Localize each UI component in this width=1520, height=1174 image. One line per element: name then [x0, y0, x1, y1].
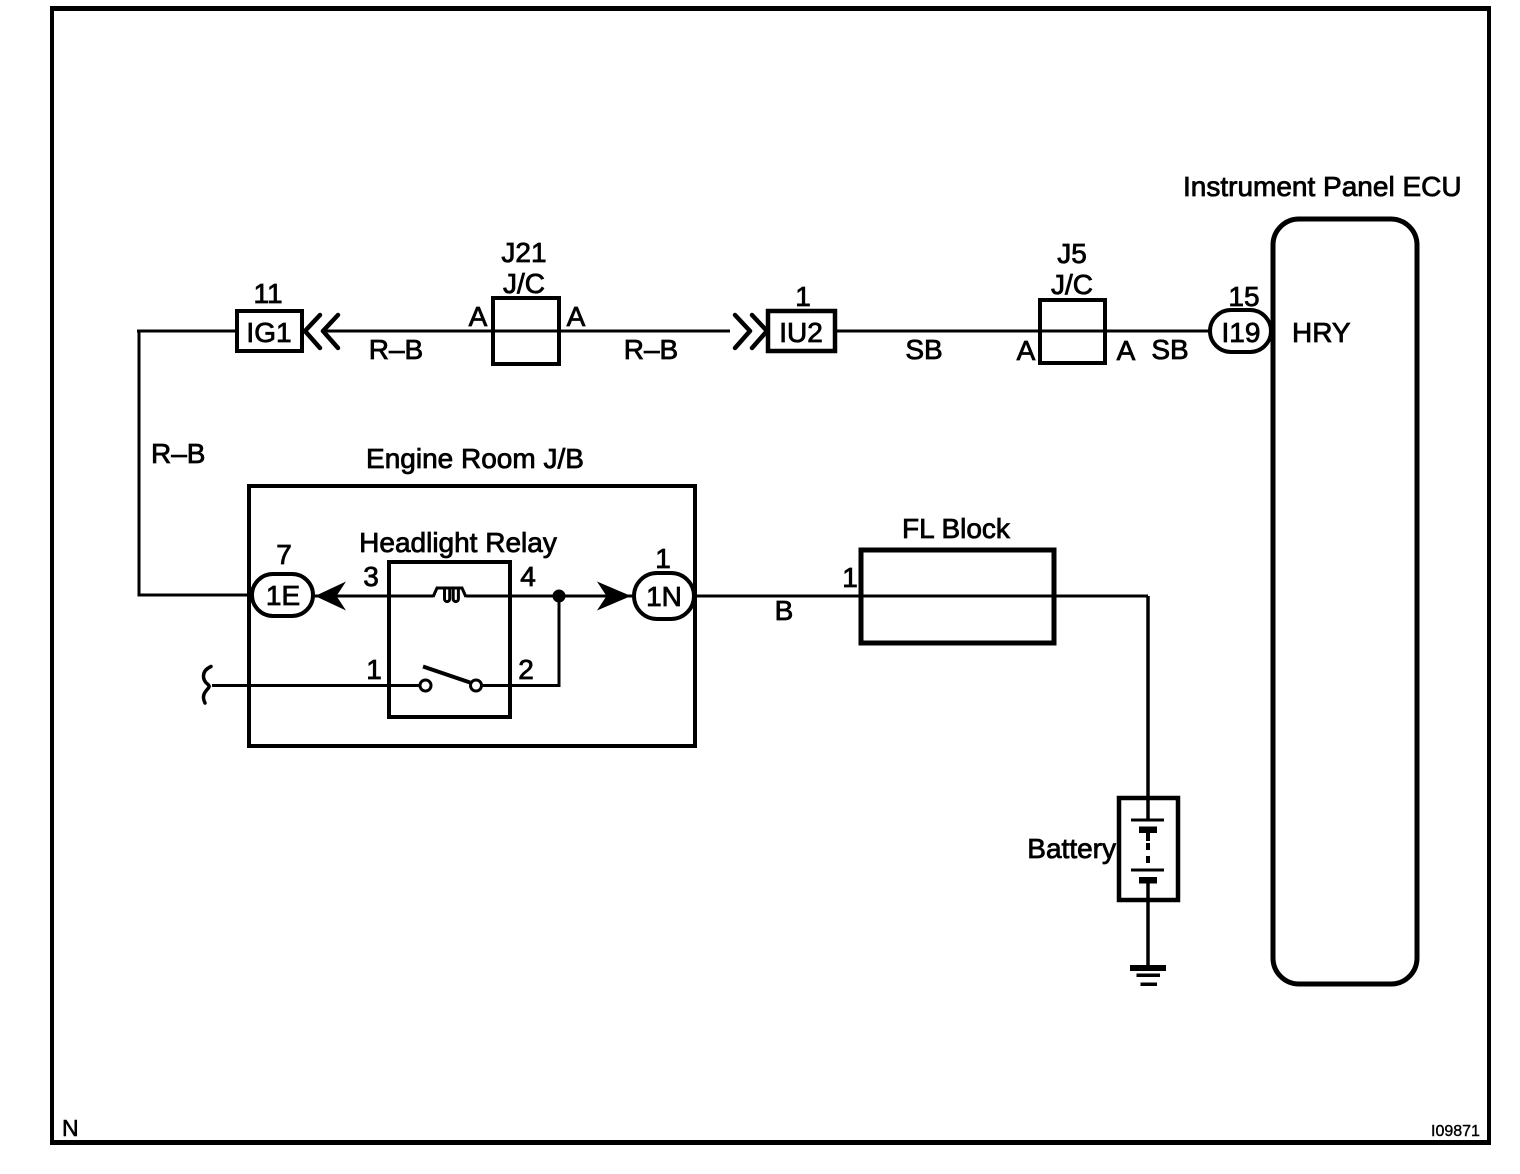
relay coil — [433, 588, 466, 602]
Engine Room J/B box — [249, 486, 695, 746]
relay box — [389, 562, 510, 717]
wire coil to junction — [466, 595, 559, 598]
svg-text:R–B: R–B — [369, 334, 423, 365]
svg-text:Instrument Panel ECU: Instrument Panel ECU — [1183, 171, 1462, 202]
connector 1N pin 1 — [634, 543, 694, 619]
svg-text:3: 3 — [363, 561, 379, 592]
svg-text:HRY: HRY — [1292, 317, 1351, 348]
wire break squiggle — [203, 667, 211, 704]
svg-text:I09871: I09871 — [1431, 1123, 1480, 1140]
svg-text:1N: 1N — [646, 581, 682, 612]
wire 1N to FL Block — [694, 595, 861, 598]
svg-text:IG1: IG1 — [246, 317, 291, 348]
ground — [1130, 965, 1166, 986]
svg-text:J/C: J/C — [503, 268, 545, 299]
svg-text:I19: I19 — [1222, 317, 1261, 348]
svg-text:J5: J5 — [1057, 238, 1087, 269]
svg-text:A: A — [1017, 335, 1036, 366]
wire 1E to relay coil — [313, 595, 433, 598]
svg-text:Headlight Relay: Headlight Relay — [359, 527, 557, 558]
svg-text:R–B: R–B — [151, 438, 205, 469]
LEFT-BRANCH — [139, 331, 252, 595]
black arrow into 1N — [597, 582, 631, 611]
svg-text:N: N — [62, 1115, 79, 1141]
svg-text:A: A — [469, 301, 488, 332]
svg-text:1: 1 — [795, 281, 811, 312]
vertical wire IG1 branch down — [139, 331, 252, 595]
svg-text:J/C: J/C — [1051, 269, 1093, 300]
FL-BATTERY — [694, 513, 1178, 986]
svg-text:B: B — [775, 595, 794, 626]
svg-text:Battery: Battery — [1027, 833, 1116, 864]
MAIN-ROW — [137, 237, 1271, 366]
connector I19 pin 15 — [1210, 281, 1271, 352]
wire junction to 1N — [559, 595, 634, 598]
svg-text:Engine Room J/B: Engine Room J/B — [366, 443, 584, 474]
relay switch blade — [423, 667, 470, 683]
splice chevrons << — [305, 315, 338, 348]
svg-text:A: A — [1117, 335, 1136, 366]
svg-text:R–B: R–B — [624, 334, 678, 365]
svg-text:1: 1 — [366, 654, 382, 685]
FOOTER — [62, 1115, 1480, 1141]
svg-text:FL Block: FL Block — [902, 513, 1011, 544]
black arrow into 1E — [315, 582, 346, 611]
svg-text:SB: SB — [905, 334, 942, 365]
wire J5 to I19 — [1040, 330, 1210, 333]
svg-text:15: 15 — [1228, 281, 1259, 312]
battery — [1027, 798, 1178, 900]
relay switch contacts — [420, 680, 431, 691]
svg-text:A: A — [567, 301, 586, 332]
ECU — [1183, 171, 1462, 984]
svg-text:1: 1 — [655, 543, 671, 574]
svg-text:2: 2 — [518, 654, 534, 685]
wire junction down to switch — [482, 596, 559, 686]
wire from left branch to IG1 — [137, 330, 237, 333]
junction connector J21 J/C — [469, 237, 586, 364]
ENGINE-ROOM-JB — [203, 443, 695, 746]
wire IU2 to J5 — [835, 330, 1040, 333]
svg-text:SB: SB — [1151, 334, 1188, 365]
wire battery to ground — [1146, 900, 1150, 965]
wire J21 to IU2 — [493, 330, 730, 333]
splice chevrons >> — [735, 315, 767, 348]
svg-text:4: 4 — [520, 561, 536, 592]
svg-text:IU2: IU2 — [779, 317, 823, 348]
connector IG1 terminal 11 — [237, 278, 302, 351]
connector IU2 terminal 1 — [768, 281, 835, 351]
wire IG1 to J21 — [322, 330, 493, 333]
wire down to battery — [1146, 596, 1150, 798]
svg-text:7: 7 — [276, 539, 292, 570]
wire switch to left break — [212, 684, 420, 687]
junction dot — [553, 590, 566, 603]
svg-text:1E: 1E — [266, 580, 300, 611]
svg-text:1: 1 — [842, 562, 858, 593]
FL Block box — [861, 550, 1054, 643]
connector 1E pin 7 — [252, 539, 313, 616]
svg-text:J21: J21 — [501, 237, 546, 268]
wire through FL Block to corner — [861, 595, 1148, 598]
svg-text:11: 11 — [253, 278, 282, 309]
junction connector J5 J/C — [1017, 238, 1136, 366]
ECU body HRY — [1273, 219, 1417, 984]
